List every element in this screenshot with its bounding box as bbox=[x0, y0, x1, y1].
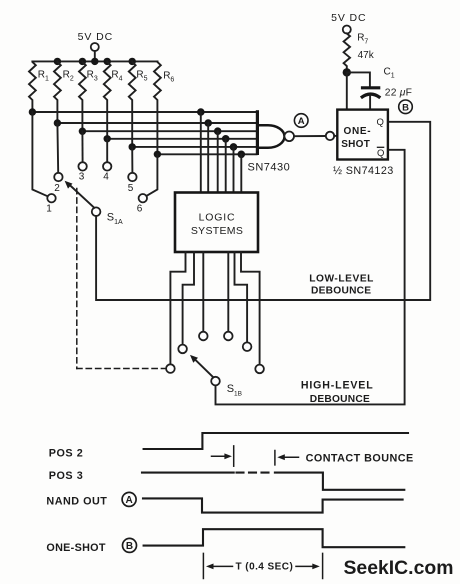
wire R6 to contact 6 bbox=[146, 154, 157, 196]
svg-text:47k: 47k bbox=[358, 50, 375, 61]
junction dots on supply bus bbox=[54, 58, 136, 65]
wire R4 to contact 4 bbox=[106, 139, 108, 162]
label low-level debounce bbox=[309, 274, 374, 297]
node B output label bbox=[399, 100, 413, 114]
svg-text:4: 4 bbox=[103, 172, 109, 183]
wire taps down to logic box bbox=[201, 112, 242, 193]
label high-level debounce bbox=[301, 379, 374, 405]
svg-text:SHOT: SHOT bbox=[341, 139, 370, 150]
wire POS 3 waveform right bbox=[275, 473, 404, 490]
resistor R7 47k bbox=[344, 33, 375, 73]
junction dots bus taps to logic bbox=[197, 108, 245, 158]
resistor R5 bbox=[129, 61, 148, 146]
switch S1A wiper bbox=[65, 181, 123, 226]
svg-text:22 μF: 22 μF bbox=[385, 88, 412, 99]
logic box U2 bbox=[175, 193, 258, 253]
switch contact 6 bbox=[137, 194, 147, 215]
wire bus line 5 bbox=[132, 146, 256, 148]
resistor R6 bbox=[154, 61, 174, 154]
wire logic pin 4 fanout bbox=[227, 252, 229, 332]
svg-text:ONE-SHOT: ONE-SHOT bbox=[46, 542, 105, 554]
node 5V DC supply (right) bbox=[331, 12, 366, 34]
node T interval right bar bbox=[296, 553, 323, 578]
switch S1B contact 4 bbox=[224, 332, 233, 341]
wire logic pin 3 fanout bbox=[202, 252, 204, 332]
wire POS 2 waveform bbox=[144, 433, 408, 449]
wire logic pin 1 fanout bbox=[170, 252, 185, 364]
switch contact 3 bbox=[78, 162, 86, 182]
op-amp U1 NAND gate SN7430 bbox=[248, 110, 295, 173]
svg-text:SN7430: SN7430 bbox=[248, 162, 291, 174]
node A output label bbox=[294, 114, 308, 128]
switch contact 2 bbox=[54, 173, 62, 194]
wire top supply bus bbox=[32, 60, 157, 62]
wire R5 to contact 5 bbox=[131, 147, 133, 173]
wire bus line 1 bbox=[32, 111, 256, 113]
wire 5V stub to bus bbox=[94, 51, 96, 61]
switch contact 5 bbox=[128, 173, 137, 194]
wire logic pin 5 fanout bbox=[235, 252, 248, 342]
junction dot R7/C1 bbox=[343, 68, 351, 76]
resistor R4 bbox=[104, 61, 123, 138]
switch S1B contact 5 bbox=[243, 342, 252, 351]
switch S1B wiper bbox=[190, 355, 242, 398]
node A marker timing bbox=[122, 492, 136, 506]
wire R1 to contact 1 bbox=[32, 112, 47, 196]
wire bus line 3 bbox=[82, 130, 256, 132]
wire C1 to one-shot top bbox=[369, 96, 371, 110]
svg-text:DEBOUNCE: DEBOUNCE bbox=[310, 394, 370, 405]
resistor R1 bbox=[29, 61, 49, 112]
svg-text:POS 2: POS 2 bbox=[49, 447, 84, 459]
wire POS 3 waveform dashed bounce bbox=[237, 472, 274, 474]
junction dots resistor bottoms bbox=[29, 108, 161, 158]
svg-text:6: 6 bbox=[137, 204, 143, 215]
capacitor C1 22uF bbox=[361, 67, 412, 99]
resistor R3 bbox=[79, 61, 98, 131]
wire dashed gang link S1A to S1B bbox=[77, 189, 166, 369]
svg-text:NAND OUT: NAND OUT bbox=[46, 495, 107, 507]
wire R7 junction down to one-shot bbox=[346, 72, 348, 109]
svg-text:HIGH-LEVEL: HIGH-LEVEL bbox=[301, 379, 374, 391]
wire terminal stub into one-shot bbox=[334, 135, 337, 137]
svg-text:SYSTEMS: SYSTEMS bbox=[191, 225, 243, 237]
svg-text:Q: Q bbox=[377, 117, 384, 128]
switch S1B contact 3 bbox=[199, 332, 208, 341]
svg-text:ONE-: ONE- bbox=[344, 126, 372, 137]
svg-text:A: A bbox=[298, 116, 305, 127]
one-shot U3 half SN74123 bbox=[333, 110, 394, 177]
svg-text:Q: Q bbox=[377, 148, 384, 159]
svg-text:CONTACT BOUNCE: CONTACT BOUNCE bbox=[306, 453, 414, 465]
switch S1B contact 6 bbox=[255, 365, 264, 374]
wire R3 to contact 3 bbox=[81, 131, 83, 162]
switch S1B contact 2 bbox=[178, 345, 187, 354]
svg-text:LOGIC: LOGIC bbox=[199, 211, 236, 223]
svg-text:LOW-LEVEL: LOW-LEVEL bbox=[309, 274, 374, 285]
wire NAND OUT waveform bbox=[143, 498, 403, 512]
svg-text:5: 5 bbox=[128, 183, 134, 194]
svg-text:POS 3: POS 3 bbox=[49, 470, 84, 482]
node bounce interval right marker bbox=[275, 451, 299, 465]
wire POS 3 waveform solid left bbox=[142, 472, 234, 474]
wire bus line 2 bbox=[57, 122, 256, 124]
node one-shot input terminal bbox=[326, 132, 334, 140]
svg-text:5V DC: 5V DC bbox=[331, 12, 366, 24]
svg-text:DEBOUNCE: DEBOUNCE bbox=[311, 286, 371, 297]
wire logic pin 2 fanout bbox=[183, 252, 194, 345]
node 5V DC supply (left) bbox=[78, 31, 113, 51]
resistor R2 bbox=[54, 61, 74, 123]
svg-text:3: 3 bbox=[79, 172, 85, 183]
svg-text:1: 1 bbox=[46, 204, 52, 215]
svg-text:T (0.4 SEC): T (0.4 SEC) bbox=[236, 562, 294, 573]
svg-text:B: B bbox=[126, 541, 133, 552]
svg-text:½ SN74123: ½ SN74123 bbox=[333, 165, 394, 177]
wire NAND output to one-shot input bbox=[294, 135, 326, 137]
wire bus line 6 bbox=[157, 153, 256, 155]
svg-text:5V DC: 5V DC bbox=[78, 31, 113, 43]
wire bus line 4 bbox=[107, 138, 256, 140]
wire S1A wiper to low-level debounce line and Q return bbox=[96, 122, 430, 300]
switch contact 1 bbox=[46, 194, 55, 215]
node bounce interval left marker bbox=[212, 446, 234, 466]
wire logic pin 6 fanout bbox=[241, 252, 260, 365]
wire junction to C1 bbox=[347, 72, 370, 86]
svg-text:SeekIC.com: SeekIC.com bbox=[344, 557, 454, 579]
node B marker timing bbox=[123, 538, 137, 552]
wire S1B wiper to high-level debounce line and Qbar return bbox=[216, 150, 405, 405]
node T interval left bar bbox=[203, 553, 232, 578]
switch contact 4 bbox=[103, 162, 111, 182]
svg-text:B: B bbox=[402, 103, 409, 114]
wire ONE-SHOT waveform bbox=[144, 529, 405, 547]
svg-text:A: A bbox=[125, 495, 132, 506]
switch S1B contact 1 bbox=[166, 364, 175, 373]
svg-text:2: 2 bbox=[54, 183, 60, 194]
wire R2 to contact 2 bbox=[56, 123, 59, 173]
